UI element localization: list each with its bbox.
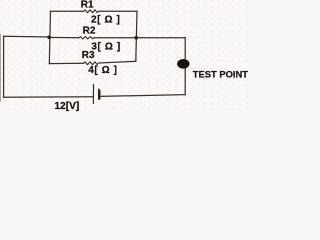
wire: R2 branch right segment <box>94 37 136 39</box>
svg-text:3[ Ω ]: 3[ Ω ] <box>91 41 120 52</box>
resistor R2 <box>79 37 94 40</box>
wire: R3 branch right segment <box>99 61 136 63</box>
wire: R1 branch right segment <box>99 10 137 12</box>
wire: test point vertical leg <box>184 38 186 95</box>
battery long plate (positive) <box>92 85 94 104</box>
resistor R3 <box>84 62 99 65</box>
wire: R2 branch left segment <box>49 36 79 38</box>
wire: bottom right segment <box>100 95 185 97</box>
wire: R3 branch left segment <box>49 62 83 64</box>
svg-text:TEST POINT: TEST POINT <box>193 68 248 79</box>
wire: left feed from battery leg to node A <box>4 35 49 38</box>
wire: bottom left segment <box>4 96 93 99</box>
battery short plate (negative) <box>98 90 101 99</box>
svg-text:12[V]: 12[V] <box>54 101 79 112</box>
wire: R1 branch left segment <box>51 10 84 12</box>
wire: left vertical leg <box>3 36 5 97</box>
svg-text:R1: R1 <box>81 0 94 11</box>
resistor R1 <box>84 10 99 13</box>
battery plate tick mark <box>98 89 100 91</box>
wire: left parallel bus <box>49 11 50 63</box>
scan edge artifact (left border) <box>0 34 1 102</box>
wire: right parallel bus <box>136 11 137 61</box>
test point dot <box>177 59 189 69</box>
junction node B (right bus / test point wire) <box>134 36 138 40</box>
svg-text:R2: R2 <box>83 26 96 37</box>
junction node A (left bus / R2 branch) <box>47 35 51 39</box>
wire: node B to test-point corner <box>136 37 185 39</box>
svg-text:2[ Ω ]: 2[ Ω ] <box>91 15 120 26</box>
svg-text:4[ Ω ]: 4[ Ω ] <box>88 65 117 76</box>
